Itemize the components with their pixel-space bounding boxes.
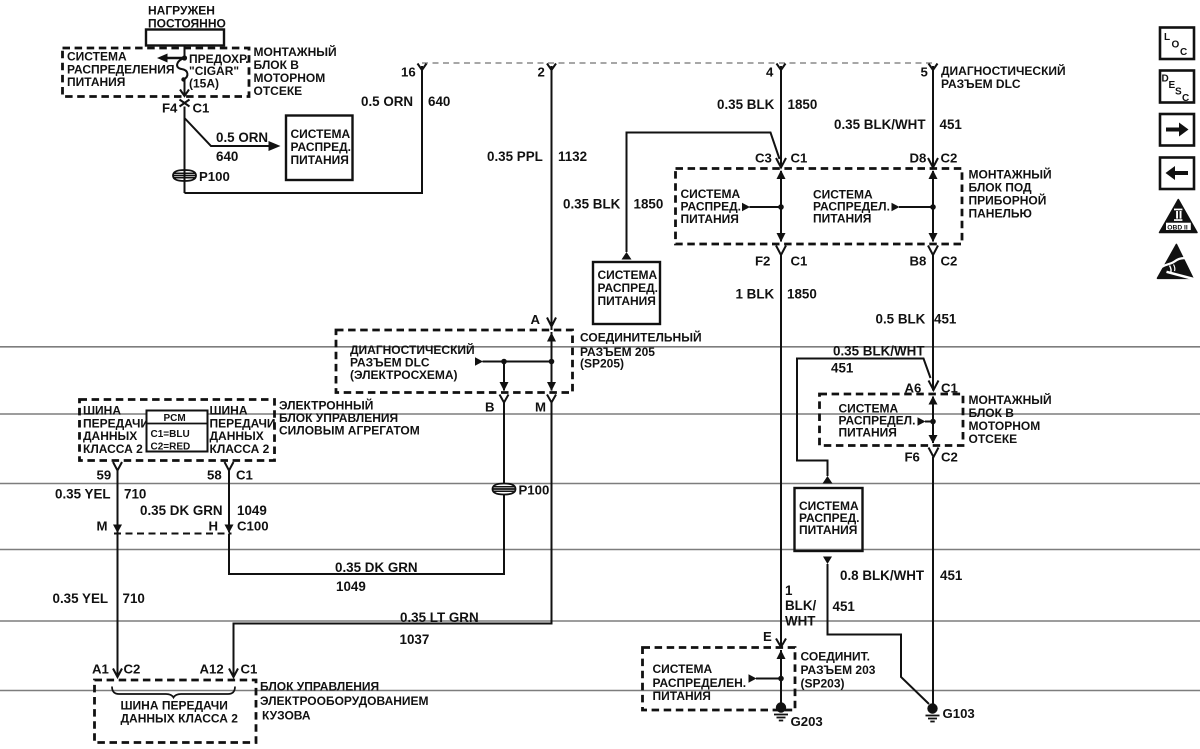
svg-text:1132: 1132 bbox=[558, 149, 587, 164]
wire: branch from pin4 wire to system box (0.35 BLK 1850) bbox=[627, 133, 780, 253]
pin 16 terminal bbox=[401, 64, 427, 80]
stub arrow to junction (right) bbox=[892, 203, 936, 211]
stub arrow to junction (splice 203) bbox=[749, 674, 784, 682]
label ЭЛЕКТРОННЫЙ БЛОК УПРАВЛЕНИЯ СИЛОВЫМ АГРЕГАТОМ bbox=[279, 398, 420, 438]
svg-text:ДИАГНОСТИЧЕСКИЙ: ДИАГНОСТИЧЕСКИЙ bbox=[941, 63, 1066, 78]
label СИСТЕМА РАСПРЕДЕЛ. ПИТАНИЯ (stub 2 in dash panel block) bbox=[813, 188, 890, 226]
wire: double-headed through fuse block (pin4 leg) bbox=[777, 170, 786, 242]
label 0.8 BLK/WHT 451 bbox=[840, 568, 963, 583]
svg-text:(15A): (15A) bbox=[189, 77, 219, 91]
ground G203 bbox=[774, 702, 823, 729]
svg-text:ПРИБОРНОЙ: ПРИБОРНОЙ bbox=[969, 193, 1047, 208]
svg-text:G203: G203 bbox=[791, 714, 823, 729]
svg-text:A: A bbox=[531, 312, 541, 327]
svg-text:0.35 BLK: 0.35 BLK bbox=[563, 197, 621, 212]
svg-text:P100: P100 bbox=[519, 483, 550, 498]
junction dot below fuse bbox=[181, 77, 185, 81]
svg-text:1850: 1850 bbox=[788, 97, 818, 112]
wire: F2 to node E (1 BLK 1850) bbox=[780, 255, 782, 647]
svg-text:НАГРУЖЕН: НАГРУЖЕН bbox=[148, 4, 215, 18]
grommet P100 (middle) bbox=[493, 483, 550, 498]
svg-text:ПАНЕЛЬЮ: ПАНЕЛЬЮ bbox=[969, 207, 1032, 221]
dashed box: PCM (ЭЛЕКТРОННЫЙ БЛОК УПРАВЛЕНИЯ) bbox=[80, 400, 275, 461]
label 0.35 BLK/WHT 451 (branch) bbox=[831, 344, 925, 376]
label 0.5 ORN 640 (pin 16 wire) bbox=[361, 94, 450, 109]
arrowhead into power distribution box bbox=[269, 141, 281, 151]
svg-text:1037: 1037 bbox=[400, 632, 430, 647]
svg-text:0.35 LT GRN: 0.35 LT GRN bbox=[400, 610, 479, 625]
label МОНТАЖНЫЙ БЛОК В МОТОРНОМ ОТСЕКЕ bbox=[254, 44, 337, 98]
svg-text:4: 4 bbox=[766, 65, 774, 80]
node: DLC connector dashed bus (top) bbox=[422, 62, 933, 64]
arrowhead into box bbox=[823, 476, 833, 484]
svg-text:БЛОК В: БЛОК В bbox=[969, 406, 1015, 420]
ground G103 bbox=[926, 703, 975, 721]
connector F2/C1 terminal bbox=[755, 246, 807, 269]
svg-text:16: 16 bbox=[401, 65, 416, 80]
svg-text:C100: C100 bbox=[237, 519, 269, 534]
svg-text:451: 451 bbox=[934, 312, 957, 327]
svg-text:ШИНА ПЕРЕДАЧИ: ШИНА ПЕРЕДАЧИ bbox=[121, 699, 228, 713]
svg-text:1049: 1049 bbox=[336, 579, 366, 594]
svg-text:B: B bbox=[485, 400, 495, 415]
wire: pin 4 vertical down to C3 bbox=[780, 66, 782, 168]
svg-text:451: 451 bbox=[831, 361, 854, 376]
svg-text:МОТОРНОМ: МОТОРНОМ bbox=[969, 419, 1041, 433]
wire: bottom corner to pin 16 riser bbox=[185, 66, 423, 193]
svg-text:C1: C1 bbox=[236, 468, 253, 483]
svg-text:1 BLK: 1 BLK bbox=[736, 287, 775, 302]
svg-text:F4: F4 bbox=[162, 101, 178, 116]
svg-text:МОНТАЖНЫЙ: МОНТАЖНЫЙ bbox=[254, 44, 337, 59]
node A1/C2 terminal bbox=[92, 662, 140, 678]
wire: F4 down through P100 to bottom corner bbox=[184, 107, 186, 194]
svg-text:C1: C1 bbox=[193, 101, 210, 116]
label 0.35 PPL 1132 bbox=[487, 149, 587, 164]
stub arrow to junction (left) bbox=[742, 203, 784, 211]
icon previous arrow button bbox=[1160, 158, 1194, 190]
svg-text:C2: C2 bbox=[941, 254, 958, 269]
svg-text:710: 710 bbox=[123, 591, 145, 606]
box СИСТЕМА РАСПРЕД. ПИТАНИЯ (lower right) bbox=[795, 488, 863, 551]
box PCM C1=BLU C2=RED bbox=[147, 411, 208, 453]
icon LOC button bbox=[1160, 28, 1194, 60]
wire: B drop inside splice box bbox=[500, 362, 509, 392]
label БЛОК УПРАВЛЕНИЯ ЭЛЕКТРООБОРУДОВАНИЕМ КУЗОВА bbox=[260, 680, 429, 723]
label ДИАГНОСТИЧЕСКИЙ РАЗЪЕМ DLC (ЭЛЕКТРОСХЕМА) bbox=[350, 342, 475, 382]
svg-text:1049: 1049 bbox=[237, 503, 267, 518]
wire: branch 0.35 BLK/WHT 451 from A6 to system box bbox=[797, 359, 931, 477]
svg-text:1: 1 bbox=[785, 583, 793, 598]
svg-text:C1: C1 bbox=[241, 662, 258, 677]
svg-text:H: H bbox=[209, 519, 219, 534]
label 0.5 ORN 640 (branch) bbox=[216, 130, 268, 164]
svg-text:ОТСЕКЕ: ОТСЕКЕ bbox=[969, 432, 1018, 446]
svg-text:451: 451 bbox=[940, 568, 963, 583]
wire: pin 59 down to C100 bbox=[113, 471, 122, 534]
dashed box: splice 203 bbox=[643, 648, 796, 711]
label ДИАГНОСТИЧЕСКИЙ РАЗЪЕМ DLC bbox=[941, 63, 1066, 91]
svg-text:ПИТАНИЯ: ПИТАНИЯ bbox=[67, 75, 125, 89]
svg-text:ПИТАНИЯ: ПИТАНИЯ bbox=[598, 294, 656, 308]
label ПРЕДОХР. "CIGAR" (15A) bbox=[189, 52, 249, 91]
svg-text:0.35 BLK/WHT: 0.35 BLK/WHT bbox=[834, 117, 926, 132]
svg-text:640: 640 bbox=[428, 94, 450, 109]
dashed box: МОНТАЖНЫЙ БЛОК В МОТОРНОМ ОТСЕКЕ (right) bbox=[820, 394, 964, 446]
svg-text:ДАННЫХ КЛАССА 2: ДАННЫХ КЛАССА 2 bbox=[121, 712, 239, 726]
svg-text:C1: C1 bbox=[791, 151, 808, 166]
label МОНТАЖНЫЙ БЛОК ПОД ПРИБОРНОЙ ПАНЕЛЬЮ bbox=[969, 167, 1052, 221]
fuse F4 CIGAR 15A symbol bbox=[177, 58, 187, 80]
svg-text:OBD II: OBD II bbox=[1167, 224, 1188, 231]
svg-text:BLK/: BLK/ bbox=[785, 598, 817, 613]
svg-text:C2: C2 bbox=[941, 450, 958, 465]
svg-text:PCM: PCM bbox=[164, 413, 186, 424]
svg-text:ЭЛЕКТРООБОРУДОВАНИЕМ: ЭЛЕКТРООБОРУДОВАНИЕМ bbox=[260, 694, 429, 708]
node E terminal bbox=[763, 629, 786, 647]
arrow stub to power distribution (left) bbox=[157, 54, 185, 63]
svg-text:СИСТЕМА: СИСТЕМА bbox=[291, 127, 351, 141]
connector F6/C2 terminal bbox=[905, 448, 958, 465]
wire: A leg through splice box, double arrowheads bbox=[547, 332, 556, 391]
svg-text:C2: C2 bbox=[941, 151, 958, 166]
svg-text:ПИТАНИЯ: ПИТАНИЯ bbox=[799, 523, 857, 537]
wire: pin 2 vertical (0.35 PPL) down to splice 205 bbox=[551, 66, 553, 330]
svg-text:0.35 YEL: 0.35 YEL bbox=[55, 487, 111, 502]
label 0.35 YEL 710 (upper) bbox=[55, 487, 146, 502]
wire: B down through P100 to DK GRN corner bbox=[229, 403, 504, 575]
svg-text:G103: G103 bbox=[943, 706, 975, 721]
label СОЕДИНИТ. РАЗЪЕМ 203 (SP203) bbox=[801, 650, 876, 691]
svg-text:0.35 BLK: 0.35 BLK bbox=[717, 97, 775, 112]
label СОЕДИНИТЕЛЬНЫЙ РАЗЪЕМ 205 (SP205) bbox=[580, 330, 702, 371]
svg-text:0.35 YEL: 0.35 YEL bbox=[53, 591, 109, 606]
svg-text:РАЗЪЕМ DLC: РАЗЪЕМ DLC bbox=[941, 77, 1021, 91]
box СИСТЕМА РАСПРЕД. ПИТАНИЯ (top left) bbox=[286, 116, 353, 181]
label 0.35 BLK/WHT 451 (pin 5) bbox=[834, 117, 962, 132]
label 0.35 BLK 1850 (branch) bbox=[563, 197, 663, 212]
label 0.35 LT GRN 1037 bbox=[400, 610, 479, 647]
connector B8/C2 terminal bbox=[910, 246, 958, 269]
svg-text:2: 2 bbox=[538, 65, 545, 80]
svg-text:0.35 DK GRN: 0.35 DK GRN bbox=[335, 560, 418, 575]
stub arrow to junction (engine block) bbox=[918, 417, 936, 425]
dashed box: body control module (class 2 bus) bbox=[95, 680, 257, 743]
svg-text:0.8 BLK/WHT: 0.8 BLK/WHT bbox=[840, 568, 925, 583]
svg-text:0.35 BLK/WHT: 0.35 BLK/WHT bbox=[833, 344, 925, 359]
svg-text:СИСТЕМА: СИСТЕМА bbox=[67, 50, 127, 64]
label ШИНА ПЕРЕДАЧИ ДАННЫХ КЛАССА 2 (right) bbox=[210, 404, 276, 456]
connector A6/C1 terminal bbox=[905, 381, 958, 396]
svg-text:640: 640 bbox=[216, 149, 238, 164]
label 0.35 YEL 710 (lower) bbox=[53, 591, 145, 606]
label 0.5 BLK 451 bbox=[876, 312, 957, 327]
svg-text:РАСПРЕД.: РАСПРЕД. bbox=[598, 281, 659, 295]
wire: F6 to G103 (0.8 BLK/WHT 451) bbox=[932, 457, 934, 705]
arrowhead into box bbox=[622, 252, 632, 260]
svg-text:M: M bbox=[535, 400, 546, 415]
svg-text:СИЛОВЫМ АГРЕГАТОМ: СИЛОВЫМ АГРЕГАТОМ bbox=[279, 424, 420, 438]
svg-text:WHT: WHT bbox=[785, 614, 816, 629]
icon ESD warning triangle bbox=[1158, 245, 1196, 280]
svg-text:59: 59 bbox=[97, 468, 112, 483]
wire: 59/M down to A1 (0.35 YEL) bbox=[117, 534, 119, 678]
svg-text:F6: F6 bbox=[905, 450, 920, 465]
svg-text:D8: D8 bbox=[910, 151, 927, 166]
svg-text:C1: C1 bbox=[791, 254, 808, 269]
wire: M down, across, to A12 (0.35 LT GRN) bbox=[234, 403, 552, 678]
svg-text:C: C bbox=[1180, 47, 1187, 58]
label СИСТЕМА РАСПРЕДЕЛ. ПИТАНИЯ (stub in engine block) bbox=[839, 402, 916, 440]
dashed box: МОНТАЖНЫЙ БЛОК ПОД ПРИБОРНОЙ ПАНЕЛЬЮ bbox=[676, 169, 963, 245]
label 0.35 BLK 1850 (pin 4) bbox=[717, 97, 817, 112]
svg-text:МОТОРНОМ: МОТОРНОМ bbox=[254, 71, 326, 85]
svg-text:L: L bbox=[1164, 32, 1170, 43]
junction dot bbox=[182, 55, 187, 60]
connector F4/C1 X mark bbox=[180, 100, 190, 107]
label 0.35 DK GRN 1049 (upper) bbox=[140, 503, 267, 518]
pin 4 terminal bbox=[766, 64, 786, 80]
label M / H / C100 bbox=[97, 519, 269, 534]
svg-text:СОЕДИНИТ.: СОЕДИНИТ. bbox=[801, 650, 870, 664]
svg-text:451: 451 bbox=[940, 117, 963, 132]
label СИСТЕМА РАСПРЕД. ПИТАНИЯ (stub in dash panel block) bbox=[681, 187, 742, 226]
wire: E into splice, up arrowhead bbox=[777, 650, 786, 704]
svg-text:(SP205): (SP205) bbox=[580, 357, 624, 371]
svg-text:M: M bbox=[97, 519, 108, 534]
pin 5 terminal bbox=[921, 64, 938, 80]
svg-text:ПИТАНИЯ: ПИТАНИЯ bbox=[813, 212, 871, 226]
pin 58/C1 terminal bbox=[207, 462, 253, 483]
brace under A1/A12 bbox=[112, 687, 235, 698]
svg-text:451: 451 bbox=[833, 599, 856, 614]
node A terminal above splice box bbox=[531, 312, 557, 327]
svg-text:C: C bbox=[1182, 93, 1189, 104]
wire: diagonal branch from F4 wire bbox=[185, 118, 269, 146]
label МОНТАЖНЫЙ БЛОК В МОТОРНОМ ОТСЕКЕ (right) bbox=[969, 392, 1052, 446]
svg-text:C2: C2 bbox=[124, 662, 141, 677]
wire: double-headed through fuse block (pin5 leg) bbox=[929, 170, 938, 242]
svg-text:58: 58 bbox=[207, 468, 222, 483]
icon next arrow button bbox=[1160, 114, 1194, 146]
node B terminal bbox=[485, 395, 509, 415]
label 1 BLK 1850 bbox=[736, 287, 817, 302]
wire: B8 down to A6 (0.5 BLK 451) bbox=[932, 255, 934, 391]
label 1 BLK/WHT 451 bbox=[785, 583, 855, 629]
stub arrow and crossbar in splice box bbox=[475, 357, 554, 365]
label 0.35 DK GRN 1049 (horizontal run) bbox=[335, 560, 418, 594]
svg-text:0.35 DK GRN: 0.35 DK GRN bbox=[140, 503, 223, 518]
svg-text:СИСТЕМА: СИСТЕМА bbox=[598, 268, 658, 282]
svg-text:0.5 ORN: 0.5 ORN bbox=[216, 130, 268, 145]
dashed box: fuse block (МОНТАЖНЫЙ БЛОК В МОТОРНОМ ОТСЕКЕ) bbox=[63, 48, 250, 97]
svg-text:ПИТАНИЯ: ПИТАНИЯ bbox=[291, 153, 349, 167]
svg-text:РАСПРЕД.: РАСПРЕД. bbox=[291, 140, 352, 154]
svg-text:ПИТАНИЯ: ПИТАНИЯ bbox=[839, 426, 897, 440]
svg-text:КЛАССА 2: КЛАССА 2 bbox=[83, 442, 143, 456]
svg-text:(ЭЛЕКТРОСХЕМА): (ЭЛЕКТРОСХЕМА) bbox=[350, 368, 458, 382]
svg-text:ПИТАНИЯ: ПИТАНИЯ bbox=[681, 212, 739, 226]
svg-text:A1: A1 bbox=[92, 662, 109, 677]
svg-text:710: 710 bbox=[124, 487, 146, 502]
label СИСТЕМА РАСПРЕДЕЛЕНИЯ ПИТАНИЯ (in fuse block) bbox=[67, 50, 175, 90]
box СИСТЕМА РАСПРЕД. ПИТАНИЯ (middle) bbox=[593, 262, 660, 324]
label НАГРУЖЕН ПОСТОЯННО bbox=[148, 4, 226, 31]
svg-text:ОТСЕКЕ: ОТСЕКЕ bbox=[254, 84, 303, 98]
svg-text:СОЕДИНИТЕЛЬНЫЙ: СОЕДИНИТЕЛЬНЫЙ bbox=[580, 330, 702, 345]
svg-text:БЛОК В: БЛОК В bbox=[254, 58, 300, 72]
svg-text:(SP203): (SP203) bbox=[801, 677, 845, 691]
svg-text:E: E bbox=[763, 629, 772, 644]
svg-text:C1=BLU: C1=BLU bbox=[151, 429, 190, 440]
arrowhead leaving box bottom bbox=[823, 557, 832, 565]
svg-text:P100: P100 bbox=[199, 169, 230, 184]
svg-text:МОНТАЖНЫЙ: МОНТАЖНЫЙ bbox=[969, 167, 1052, 182]
svg-text:1850: 1850 bbox=[634, 197, 664, 212]
svg-text:O: O bbox=[1172, 40, 1180, 51]
node A12/C1 terminal bbox=[200, 662, 258, 678]
connector C100 dashed line bbox=[114, 533, 232, 535]
label ШИНА ПЕРЕДАЧИ ДАННЫХ КЛАССА 2 (bottom box) bbox=[121, 699, 239, 726]
pin 2 terminal bbox=[538, 64, 557, 80]
icon OBD II triangle bbox=[1160, 200, 1198, 233]
wire: double-headed through engine fuse block bbox=[929, 396, 938, 444]
svg-text:1850: 1850 bbox=[787, 287, 817, 302]
section rules (gray horizontal separators) bbox=[0, 347, 1200, 691]
svg-text:СИСТЕМА: СИСТЕМА bbox=[653, 662, 713, 676]
svg-text:A12: A12 bbox=[200, 662, 224, 677]
svg-text:БЛОК УПРАВЛЕНИЯ: БЛОК УПРАВЛЕНИЯ bbox=[260, 680, 379, 694]
svg-text:0.35 PPL: 0.35 PPL bbox=[487, 149, 543, 164]
wire: bus bar to fuse bbox=[184, 46, 186, 59]
svg-text:5: 5 bbox=[921, 65, 928, 80]
connector D8/C2 terminal bbox=[910, 151, 958, 168]
svg-text:F2: F2 bbox=[755, 254, 770, 269]
svg-text:B8: B8 bbox=[910, 254, 927, 269]
svg-text:КУЗОВА: КУЗОВА bbox=[262, 709, 311, 723]
svg-text:РАСПРЕДЕЛЕН.: РАСПРЕДЕЛЕН. bbox=[653, 676, 747, 690]
wire: fuse down to block edge with open arrowhead bbox=[180, 80, 189, 97]
svg-text:C3: C3 bbox=[755, 151, 772, 166]
wire: box to G103 (1 BLK/WHT 451) bbox=[828, 564, 930, 704]
svg-text:C2=RED: C2=RED bbox=[151, 442, 191, 453]
svg-text:РАЗЪЕМ 203: РАЗЪЕМ 203 bbox=[801, 663, 876, 677]
svg-text:МОНТАЖНЫЙ: МОНТАЖНЫЙ bbox=[969, 392, 1052, 407]
wire: pin 5 vertical down to D8 bbox=[932, 66, 934, 168]
dashed box: ДИАГНОСТИЧЕСКИЙ РАЗЪЕМ DLC (splice 205) bbox=[336, 330, 573, 393]
svg-text:0.5 BLK: 0.5 BLK bbox=[876, 312, 926, 327]
node M terminal bbox=[535, 395, 556, 415]
power bus bar box (hot at all times) bbox=[146, 30, 224, 46]
wire: pin 58 down to C100 bbox=[225, 471, 234, 534]
icon DESC button bbox=[1160, 71, 1194, 105]
pin 59 terminal bbox=[97, 462, 123, 483]
svg-text:ПИТАНИЯ: ПИТАНИЯ bbox=[653, 689, 711, 703]
label СИСТЕМА РАСПРЕДЕЛЕН. ПИТАНИЯ (in splice 203 box) bbox=[653, 662, 747, 703]
grommet P100 (left) bbox=[173, 170, 196, 181]
svg-text:S: S bbox=[1175, 87, 1182, 98]
label ШИНА ПЕРЕДАЧИ ДАННЫХ КЛАССА 2 (left) bbox=[83, 404, 149, 456]
connector C3/C1 terminal bbox=[755, 151, 807, 168]
svg-text:КЛАССА 2: КЛАССА 2 bbox=[210, 442, 270, 456]
svg-text:БЛОК ПОД: БЛОК ПОД bbox=[969, 181, 1033, 195]
svg-text:0.5 ORN: 0.5 ORN bbox=[361, 94, 413, 109]
